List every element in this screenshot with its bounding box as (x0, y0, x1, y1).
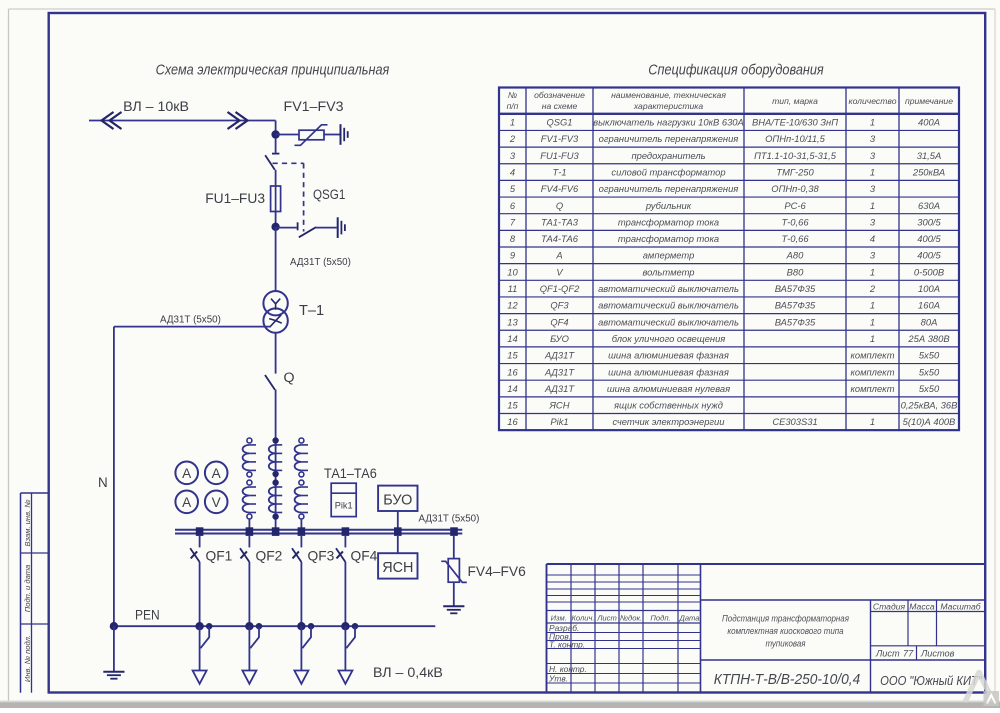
surge arrester FV4-FV6 (varistor) (441, 559, 467, 583)
table row 6: Q (510, 200, 940, 211)
svg-text:комплектная киоскового типа: комплектная киоскового типа (727, 625, 843, 636)
svg-text:3: 3 (870, 133, 876, 144)
svg-text:FV4–FV6: FV4–FV6 (468, 564, 527, 579)
outgoing feeder arrow QF4 (338, 626, 352, 684)
svg-text:Лист: Лист (875, 649, 900, 659)
node: bus tap FV4 (450, 527, 458, 536)
svg-text:2: 2 (869, 283, 876, 294)
title block left section grid (547, 564, 701, 693)
wire bus to FV4-FV6 (453, 535, 455, 559)
svg-text:15: 15 (507, 400, 518, 411)
table row 2: FV1-FV3 (509, 133, 876, 144)
svg-text:ТА1-ТА3: ТА1-ТА3 (541, 216, 579, 227)
svg-text:13: 13 (507, 316, 518, 327)
svg-text:400/5: 400/5 (917, 233, 941, 244)
paper bottom gray strip (0, 702, 1000, 708)
node: QF3 feeder on PEN with N-branch (297, 622, 314, 648)
outgoing feeder arrow QF3 (294, 626, 308, 684)
svg-text:амперметр: амперметр (643, 250, 695, 261)
svg-text:A: A (182, 495, 192, 510)
svg-text:16: 16 (507, 416, 518, 427)
table row 17: АД31Т (507, 383, 940, 394)
table row 7: ТА1-ТА3 (510, 216, 942, 227)
svg-text:1: 1 (870, 166, 875, 177)
svg-text:АД31Т (5х50): АД31Т (5х50) (160, 315, 221, 326)
svg-text:1: 1 (870, 300, 875, 311)
svg-text:шина алюминиевая фазная: шина алюминиевая фазная (608, 366, 729, 377)
svg-text:количество: количество (849, 96, 897, 106)
svg-text:ЯСН: ЯСН (549, 400, 570, 411)
svg-text:QSG1: QSG1 (546, 117, 572, 128)
svg-text:A: A (212, 466, 222, 481)
svg-text:АД31Т: АД31Т (544, 350, 575, 361)
svg-text:QF4: QF4 (351, 549, 378, 564)
circuit breaker QF2 (240, 535, 249, 626)
node: bus tap QF3/TA (298, 527, 306, 536)
node: junction dot before transformer (271, 223, 279, 231)
svg-text:ящик собственных нужд: ящик собственных нужд (613, 400, 723, 411)
svg-text:1: 1 (870, 333, 875, 344)
wire FV4 to earth (453, 582, 455, 605)
svg-text:Схема электрическая принципиал: Схема электрическая принципиальная (156, 62, 390, 78)
svg-text:5(10)А 400В: 5(10)А 400В (903, 416, 956, 427)
circuit breaker QF3 (292, 535, 301, 626)
busbar 0.4kV (double line) (175, 530, 462, 534)
fuse FU1-FU3 (271, 186, 281, 212)
wire: N conductor from transformer neutral (114, 327, 271, 627)
svg-text:автоматический выключатель: автоматический выключатель (598, 316, 739, 327)
svg-text:Подп. и дата: Подп. и дата (23, 565, 32, 613)
svg-text:АД31Т: АД31Т (544, 383, 575, 394)
ammeter A (top-left) (175, 462, 198, 485)
svg-text:ТМГ-250: ТМГ-250 (776, 166, 814, 177)
svg-text:ВЛ – 0,4кВ: ВЛ – 0,4кВ (373, 665, 443, 681)
title block signature rows labels (548, 623, 587, 684)
svg-text:FV1–FV3: FV1–FV3 (284, 99, 344, 115)
svg-text:14: 14 (507, 333, 517, 344)
svg-text:630А: 630А (918, 200, 940, 211)
svg-text:ОПНп-0,38: ОПНп-0,38 (771, 183, 819, 194)
street lighting block BUO (378, 486, 417, 511)
svg-text:ограничитель перенапряжения: ограничитель перенапряжения (599, 183, 739, 194)
current transformer TA group left column (243, 438, 256, 529)
svg-text:Н. контр.: Н. контр. (549, 664, 587, 674)
arrowheads on 10kV line (left) (102, 112, 122, 129)
svg-text:вольтметр: вольтметр (642, 266, 694, 277)
svg-text:БУО: БУО (550, 333, 570, 344)
svg-text:ЯСН: ЯСН (382, 560, 413, 576)
svg-text:Листов: Листов (920, 649, 955, 659)
svg-text:9: 9 (510, 250, 516, 261)
switch Q (disconnector) (265, 375, 276, 436)
wire: PEN conductor (114, 625, 435, 627)
svg-text:QF1-QF2: QF1-QF2 (540, 283, 580, 294)
svg-text:77: 77 (903, 649, 914, 659)
table header texts (507, 90, 954, 111)
wire BUO to bus (397, 511, 399, 530)
table row 12: QF3 (507, 300, 940, 311)
svg-text:Утв.: Утв. (548, 674, 568, 684)
wire transformer to switch Q (275, 333, 277, 374)
wire to earthing switch (276, 227, 297, 229)
node: QF2 feeder on PEN with N-branch (245, 622, 262, 648)
ground (earth) for QSG1 earthing switch (338, 217, 345, 238)
svg-text:шина алюминиевая фазная: шина алюминиевая фазная (608, 350, 729, 361)
title block middle/right dividers (701, 600, 986, 693)
table row 8: ТА4-ТА6 (510, 233, 942, 244)
svg-text:FV4-FV6: FV4-FV6 (541, 183, 579, 194)
svg-text:Масштаб: Масштаб (940, 602, 981, 612)
node: bus tap QF4 (342, 527, 350, 536)
svg-text:3: 3 (510, 150, 516, 161)
circuit breaker QF1 (190, 535, 199, 626)
svg-text:PEN: PEN (135, 607, 160, 623)
svg-text:выключатель нагрузки 10кВ 630А: выключатель нагрузки 10кВ 630А (593, 117, 744, 128)
table row 11: QF1-QF2 (508, 283, 940, 294)
earthing switch contact of QSG1 (298, 222, 337, 237)
svg-text:1: 1 (870, 117, 875, 128)
svg-text:400/5: 400/5 (917, 250, 941, 261)
svg-text:1: 1 (870, 416, 875, 427)
transformer T-1 (263, 291, 287, 333)
svg-text:7: 7 (510, 216, 516, 227)
svg-text:1: 1 (510, 117, 515, 128)
svg-text:31,5А: 31,5А (917, 150, 942, 161)
svg-text:0,25кВА, 36В: 0,25кВА, 36В (901, 400, 958, 411)
svg-text:комплект: комплект (850, 350, 894, 361)
table row 5: FV4-FV6 (510, 183, 876, 194)
svg-text:QF4: QF4 (550, 316, 568, 327)
strip label: Подп. и дата (23, 565, 32, 613)
svg-text:ПТ1.1-10-31,5-31,5: ПТ1.1-10-31,5-31,5 (754, 150, 837, 161)
svg-text:тупиковая: тупиковая (765, 638, 805, 649)
svg-text:А: А (555, 250, 562, 261)
svg-text:3: 3 (870, 216, 876, 227)
svg-text:обозначение: обозначение (534, 90, 585, 100)
table row 16: АД31Т (507, 366, 940, 377)
left frame strip cells (21, 493, 49, 693)
surge arrester FV1-FV3 (varistor) (295, 125, 328, 146)
auxiliary needs box YSN (378, 553, 417, 578)
svg-text:QF2: QF2 (256, 549, 283, 564)
svg-text:счетчик электроэнергии: счетчик электроэнергии (613, 416, 726, 427)
svg-text:А80: А80 (786, 250, 804, 261)
svg-text:100А: 100А (918, 283, 940, 294)
svg-text:5х50: 5х50 (919, 366, 940, 377)
table row 14: БУО (507, 333, 949, 344)
paper edge shadow top (9, 8, 996, 10)
svg-text:6: 6 (510, 200, 516, 211)
table row 18: ЯСН (507, 400, 957, 411)
sheet numbers row (875, 649, 955, 659)
ground (earth) for N/PEN (103, 626, 124, 679)
svg-text:0-500В: 0-500В (914, 266, 944, 277)
table row 9: А (510, 250, 942, 261)
svg-text:ОПНп-10/11,5: ОПНп-10/11,5 (765, 133, 826, 144)
svg-text:автоматический выключатель: автоматический выключатель (598, 283, 739, 294)
svg-text:Подп.: Подп. (650, 614, 670, 623)
svg-text:25А 380В: 25А 380В (907, 333, 949, 344)
ammeter A (bottom-left) (175, 491, 198, 514)
svg-text:QF3: QF3 (550, 300, 569, 311)
svg-text:ограничитель перенапряжения: ограничитель перенапряжения (599, 133, 739, 144)
svg-text:В80: В80 (787, 266, 804, 277)
svg-text:ТА1–ТА6: ТА1–ТА6 (324, 466, 377, 482)
node: PEN-N junction (110, 622, 118, 630)
svg-text:наименование, техническая: наименование, техническая (611, 90, 726, 100)
svg-text:5х50: 5х50 (919, 350, 940, 361)
svg-text:АД31Т (5х50): АД31Т (5х50) (290, 257, 351, 268)
watermark logo (bottom right) (966, 673, 999, 707)
svg-text:ВЛ – 10кВ: ВЛ – 10кВ (123, 99, 189, 115)
svg-text:80А: 80А (921, 316, 938, 327)
svg-text:Т–1: Т–1 (299, 303, 324, 319)
svg-text:QF3: QF3 (308, 549, 335, 564)
svg-text:Т-1: Т-1 (552, 166, 566, 177)
svg-text:Т-0,66: Т-0,66 (781, 233, 809, 244)
voltmeter V (bottom-right) (205, 491, 228, 514)
ground (earth) for FV4-FV6 (443, 606, 464, 613)
wire: VL-10kV incoming overhead line (89, 121, 276, 135)
svg-text:ООО "Южный КИТ": ООО "Южный КИТ" (880, 673, 982, 688)
svg-text:Pik1: Pik1 (550, 416, 568, 427)
svg-text:Колич.: Колич. (571, 614, 594, 623)
stage/mass/scale header (873, 602, 982, 612)
wire from FV1-FV3 to earth (324, 134, 340, 136)
paper edge shadow left (8, 9, 10, 702)
table row 3: FU1-FU3 (510, 150, 941, 161)
wire bus to YSN (397, 535, 399, 553)
svg-text:5: 5 (510, 183, 516, 194)
svg-text:FU1–FU3: FU1–FU3 (205, 191, 265, 206)
svg-text:14: 14 (507, 383, 517, 394)
svg-text:предохранитель: предохранитель (631, 150, 705, 161)
svg-text:3: 3 (870, 150, 876, 161)
svg-text:10: 10 (507, 266, 518, 277)
svg-text:СЕ303S31: СЕ303S31 (772, 416, 817, 427)
svg-text:4: 4 (870, 233, 875, 244)
table row 4: Т-1 (510, 166, 945, 177)
svg-text:КТПН-Т-В/В-250-10/0,4: КТПН-Т-В/В-250-10/0,4 (714, 672, 861, 689)
title block column labels row (551, 614, 700, 623)
svg-text:250кВА: 250кВА (912, 166, 945, 177)
wire to FV1-FV3 (276, 134, 299, 136)
node: bus tap BUO/YSN (394, 527, 402, 536)
switch QSG1 main contact (265, 138, 279, 186)
current transformer TA group middle column (on main line) (269, 436, 282, 530)
table row 13: QF4 (507, 316, 937, 327)
svg-text:FV1-FV3: FV1-FV3 (541, 133, 579, 144)
table row 19: Pik1 (507, 416, 955, 427)
svg-text:15: 15 (507, 350, 518, 361)
svg-text:№: № (508, 90, 517, 100)
node: bus tap QF1 (196, 527, 204, 536)
svg-text:1: 1 (870, 316, 875, 327)
strip label: Инв. № подл. (23, 635, 32, 682)
svg-text:Изм.: Изм. (551, 614, 567, 623)
svg-text:автоматический выключатель: автоматический выключатель (598, 300, 739, 311)
svg-text:8: 8 (510, 233, 516, 244)
svg-text:ВА57Ф35: ВА57Ф35 (775, 316, 816, 327)
svg-text:№док.: №док. (620, 614, 642, 623)
svg-text:Q: Q (556, 200, 563, 211)
svg-text:Масса: Масса (909, 602, 935, 612)
svg-text:на схеме: на схеме (542, 101, 578, 111)
outgoing feeder arrow QF1 (193, 626, 207, 684)
paper edge shadow right (994, 9, 996, 702)
svg-text:примечание: примечание (905, 96, 953, 106)
ammeter A (top-right) (205, 462, 228, 485)
table row 15: АД31Т (507, 350, 940, 361)
svg-text:11: 11 (508, 283, 518, 294)
svg-text:12: 12 (507, 300, 518, 311)
node: QF1 feeder on PEN with N-branch (195, 622, 212, 648)
svg-text:Q: Q (284, 370, 295, 386)
svg-text:400А: 400А (918, 117, 940, 128)
svg-text:АД31Т: АД31Т (544, 366, 575, 377)
svg-text:шина алюминиевая нулевая: шина алюминиевая нулевая (607, 383, 730, 394)
specification table grid (499, 88, 959, 431)
svg-text:блок уличного освещения: блок уличного освещения (612, 333, 726, 344)
strip label: Взам. инв. № (23, 500, 32, 547)
svg-text:FU1-FU3: FU1-FU3 (540, 150, 579, 161)
svg-text:комплект: комплект (850, 383, 894, 394)
svg-text:V: V (556, 266, 563, 277)
svg-text:характеристика: характеристика (633, 101, 703, 111)
svg-text:QSG1: QSG1 (313, 186, 345, 202)
document name: substation description (722, 613, 849, 649)
node: junction dot at FV branch (271, 130, 279, 138)
svg-text:3: 3 (870, 250, 876, 261)
svg-text:тип, марка: тип, марка (772, 96, 818, 106)
svg-text:1: 1 (870, 266, 875, 277)
svg-text:ТА4-ТА6: ТА4-ТА6 (541, 233, 579, 244)
svg-text:Стадия: Стадия (873, 602, 906, 612)
svg-text:ВА57Ф35: ВА57Ф35 (775, 300, 816, 311)
svg-text:N: N (98, 475, 108, 490)
svg-text:АД31Т (5х50): АД31Т (5х50) (419, 514, 480, 525)
svg-text:трансформатор тока: трансформатор тока (618, 216, 719, 227)
svg-text:БУО: БУО (383, 493, 412, 509)
wire node to transformer (275, 227, 277, 291)
svg-text:Дата: Дата (678, 614, 699, 623)
svg-text:5х50: 5х50 (919, 383, 940, 394)
svg-text:Спецификация оборудования: Спецификация оборудования (648, 62, 824, 78)
svg-text:трансформатор тока: трансформатор тока (618, 233, 719, 244)
energy meter Pik1 box (331, 483, 356, 516)
svg-text:ВА57Ф35: ВА57Ф35 (775, 283, 816, 294)
arrowheads on 10kV line (right) (228, 112, 248, 129)
outgoing feeder arrow QF2 (242, 626, 256, 684)
svg-text:комплект: комплект (850, 366, 894, 377)
circuit breaker QF4 (336, 535, 345, 626)
svg-text:Pik1: Pik1 (335, 501, 353, 511)
svg-text:1: 1 (870, 200, 875, 211)
node: bus tap main (272, 527, 280, 536)
ground (earth) for FV1-FV3 (341, 124, 348, 145)
current transformer TA group right column (295, 438, 308, 529)
title block outer lines (547, 564, 986, 693)
svg-text:Подстанция трансформаторная: Подстанция трансформаторная (722, 613, 849, 624)
wire fuse to node (275, 212, 277, 227)
node: QF4 feeder on PEN with N-branch (341, 622, 358, 648)
dashed linkage of QSG1 (273, 163, 304, 231)
svg-text:рубильник: рубильник (645, 200, 692, 211)
svg-text:РС-6: РС-6 (784, 200, 806, 211)
table row 1: QSG1 (510, 117, 940, 128)
svg-text:2: 2 (509, 133, 516, 144)
svg-text:ВНА/ТЕ-10/630 ЗнП: ВНА/ТЕ-10/630 ЗнП (752, 117, 838, 128)
svg-text:V: V (212, 495, 221, 510)
svg-text:Т. контр.: Т. контр. (549, 640, 585, 650)
svg-text:160А: 160А (918, 300, 940, 311)
svg-text:3: 3 (870, 183, 876, 194)
svg-text:Лист: Лист (596, 614, 617, 623)
svg-text:силовой трансформатор: силовой трансформатор (611, 166, 725, 177)
svg-text:п/п: п/п (507, 101, 519, 111)
svg-text:16: 16 (507, 366, 518, 377)
svg-text:Инв. № подл.: Инв. № подл. (23, 635, 32, 682)
svg-text:4: 4 (510, 166, 515, 177)
node: bus tap QF2/TA (246, 527, 254, 536)
svg-text:A: A (182, 466, 192, 481)
svg-text:300/5: 300/5 (917, 216, 941, 227)
svg-text:Т-0,66: Т-0,66 (781, 216, 809, 227)
table row 10: V (507, 266, 944, 277)
svg-text:Взам. инв. №: Взам. инв. № (23, 500, 32, 547)
svg-text:QF1: QF1 (206, 549, 233, 564)
